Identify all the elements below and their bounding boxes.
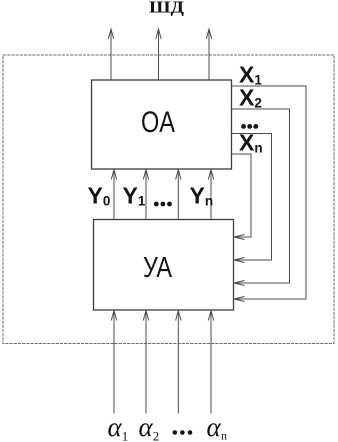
- svg-text:OA: OA: [141, 106, 175, 139]
- label Yn: [190, 183, 214, 209]
- label dots between alpha2 and alphan: [173, 430, 193, 435]
- label ШД (data bus): [149, 0, 185, 17]
- wire Xn: OA right to UA right (inner loop): [232, 154, 252, 240]
- wire X2: OA right to UA right: [232, 109, 290, 286]
- wire: OA output 3 to ШД: [206, 29, 211, 80]
- wire Yn: UA top to OA bottom: [208, 170, 213, 220]
- wire Y1: UA top to OA bottom: [143, 170, 148, 220]
- svg-text:n: n: [221, 429, 227, 442]
- label dots between X2 and Xn: [241, 124, 258, 129]
- wire alpha1 input to UA: [111, 311, 116, 414]
- label Xn: [239, 130, 263, 156]
- block OA (operational automaton): [92, 80, 232, 169]
- wire alpha... input to UA: [176, 311, 181, 414]
- wire Y...: UA top to OA bottom: [176, 170, 181, 220]
- label dots between Y1 and Yn: [154, 202, 172, 207]
- dashed boundary: [3, 55, 334, 344]
- svg-text:α: α: [207, 412, 222, 442]
- wire alphan input to UA: [208, 311, 213, 414]
- svg-text:α: α: [139, 412, 154, 442]
- svg-text:ШД: ШД: [149, 0, 185, 17]
- label УА: [143, 252, 172, 284]
- wire X... : OA right to UA right: [232, 134, 272, 263]
- label Y1: [123, 183, 146, 209]
- svg-text:2: 2: [153, 429, 160, 442]
- label alpha2: [139, 412, 160, 442]
- wire Y0: UA top to OA bottom: [111, 170, 116, 220]
- label X2: [239, 85, 262, 111]
- svg-text:α: α: [108, 412, 123, 442]
- wire: OA output 1 to ШД: [108, 29, 113, 80]
- label Y0: [88, 183, 111, 209]
- svg-text:1: 1: [122, 429, 129, 442]
- label alphan: [207, 412, 228, 442]
- label alpha1: [108, 412, 129, 442]
- svg-text:УА: УА: [143, 252, 172, 284]
- label X1: [239, 62, 262, 88]
- block УА (control automaton): [94, 220, 234, 311]
- wire X1: OA right to UA right (outer loop): [232, 86, 307, 302]
- label OA: [141, 106, 175, 139]
- wire: OA output 2 to ШД: [156, 29, 161, 80]
- wire alpha2 input to UA: [143, 311, 148, 414]
